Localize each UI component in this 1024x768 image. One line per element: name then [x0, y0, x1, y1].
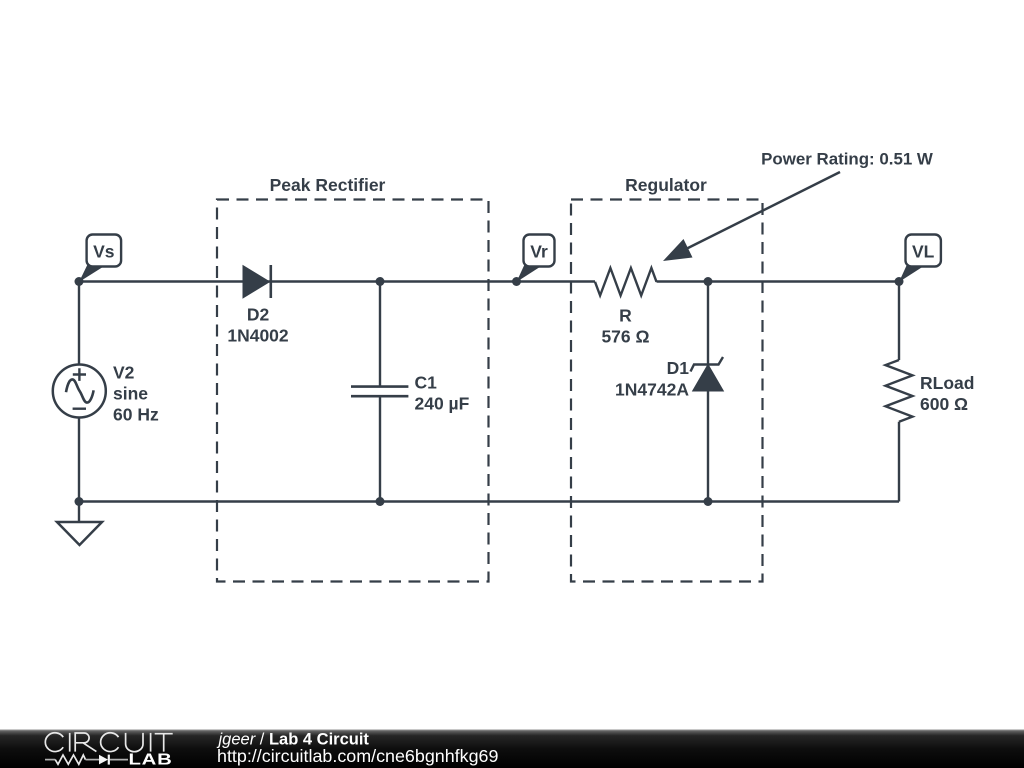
wire: zener D1 top lead — [707, 282, 709, 365]
node dot VL — [895, 277, 904, 286]
resistor RLoad zigzag — [886, 360, 913, 422]
V2 sine waveform — [66, 379, 94, 402]
svg-text:Power Rating: 0.51 W: Power Rating: 0.51 W — [761, 150, 933, 169]
flag VL — [899, 235, 941, 283]
CircuitLab logo word CIRCUIT (hand-drawn thin letters) — [45, 733, 172, 752]
annotation arrowhead — [663, 239, 693, 261]
wire: bottom rail — [79, 500, 899, 502]
voltage source V2 circle — [53, 365, 106, 418]
Peak Rectifier dashed box — [217, 200, 489, 582]
svg-text:Vs: Vs — [93, 242, 115, 262]
svg-text:D2: D2 — [247, 305, 270, 325]
node dot Vs — [75, 277, 84, 286]
zener diode D1 — [691, 357, 724, 391]
node dot D1 top — [704, 277, 713, 286]
svg-text:576 Ω: 576 Ω — [601, 327, 649, 347]
node dot D1 bottom — [704, 497, 713, 506]
node dot Vr — [512, 277, 521, 286]
capacitor C1 — [351, 282, 408, 502]
svg-text:1N4002: 1N4002 — [227, 326, 289, 346]
node dot C1 top — [376, 277, 385, 286]
svg-text:RLoad: RLoad — [920, 373, 974, 393]
node dot C1 bottom — [376, 497, 385, 506]
wire: RLoad top lead — [898, 282, 900, 361]
svg-text:V2: V2 — [113, 363, 135, 383]
CircuitLab logo squiggle (resistor + diode) — [45, 755, 128, 765]
svg-text:R: R — [619, 306, 632, 326]
ground symbol — [57, 502, 102, 546]
svg-text:Vr: Vr — [530, 242, 548, 262]
resistor R zigzag — [595, 268, 657, 296]
svg-text:600 Ω: 600 Ω — [920, 394, 968, 414]
footer bar — [0, 730, 1024, 768]
CircuitLab logo word LAB — [129, 750, 173, 768]
wire: RLoad bottom lead — [898, 422, 900, 502]
svg-text:sine: sine — [113, 384, 148, 404]
svg-text:http://circuitlab.com/cne6bgnh: http://circuitlab.com/cne6bgnhfkg69 — [217, 746, 498, 766]
annotation arrow line — [679, 172, 840, 253]
flag Vr — [517, 235, 555, 283]
svg-text:C1: C1 — [415, 373, 438, 393]
svg-text:Regulator: Regulator — [625, 175, 707, 195]
V2 plus sign — [73, 368, 86, 381]
wire: V2 top lead — [78, 282, 80, 365]
wire: zener D1 bottom lead — [707, 390, 709, 502]
wire: V2 bottom lead — [78, 418, 80, 502]
Regulator dashed box — [571, 200, 763, 582]
svg-text:240 µF: 240 µF — [415, 394, 470, 414]
node dot ground — [75, 497, 84, 506]
wire: top rail Vs to R — [79, 280, 595, 282]
diode D2 — [244, 265, 271, 298]
V2 minus sign — [73, 408, 86, 410]
svg-text:Peak Rectifier: Peak Rectifier — [270, 175, 386, 195]
wire: top rail R to VL — [657, 280, 900, 282]
flag Vs — [79, 235, 121, 283]
svg-text:LAB: LAB — [129, 750, 173, 768]
svg-text:1N4742A: 1N4742A — [615, 380, 689, 400]
svg-text:VL: VL — [912, 242, 935, 262]
svg-text:60 Hz: 60 Hz — [113, 405, 159, 425]
svg-text:D1: D1 — [667, 358, 690, 378]
